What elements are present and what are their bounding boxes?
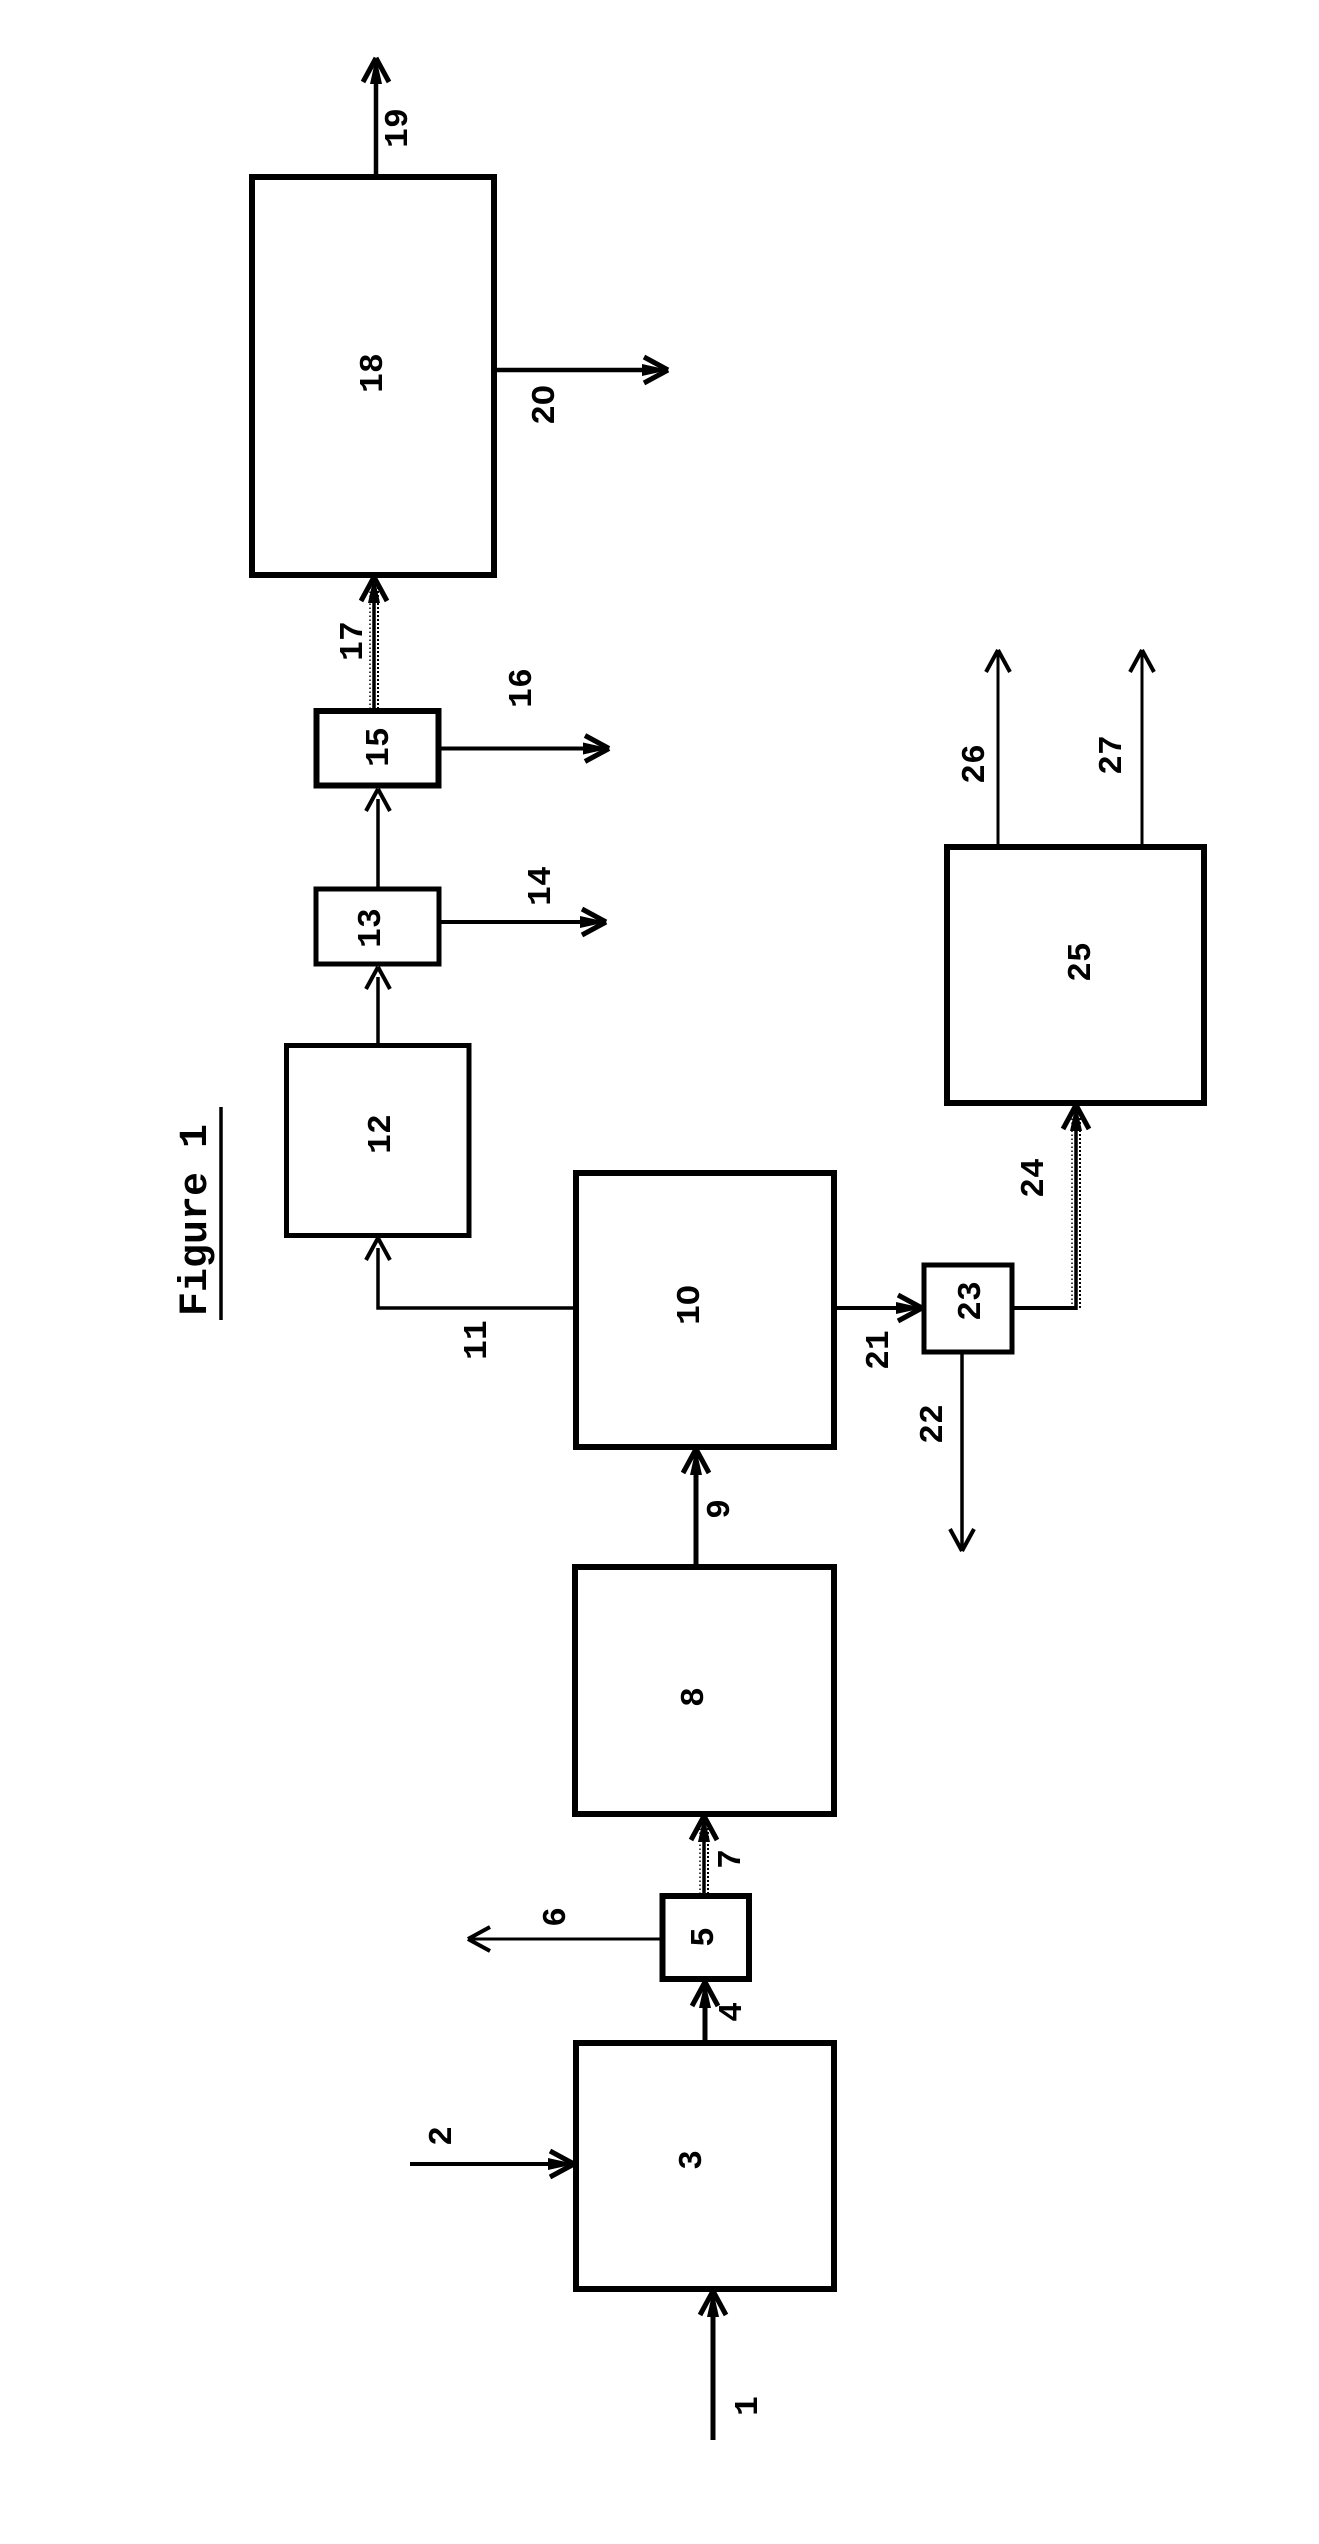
svg-text:4: 4 bbox=[714, 2002, 751, 2022]
svg-text:8: 8 bbox=[676, 1687, 713, 1707]
svg-text:27: 27 bbox=[1094, 735, 1131, 775]
svg-text:5: 5 bbox=[686, 1927, 723, 1947]
svg-text:25: 25 bbox=[1063, 942, 1100, 982]
svg-text:3: 3 bbox=[674, 2150, 711, 2170]
svg-text:14: 14 bbox=[523, 866, 560, 906]
svg-text:2: 2 bbox=[424, 2126, 461, 2146]
svg-text:11: 11 bbox=[459, 1320, 496, 1360]
svg-text:9: 9 bbox=[702, 1499, 739, 1519]
svg-text:18: 18 bbox=[355, 353, 392, 393]
svg-text:15: 15 bbox=[361, 727, 398, 767]
svg-text:6: 6 bbox=[538, 1907, 575, 1927]
svg-text:1: 1 bbox=[730, 2396, 767, 2416]
svg-text:23: 23 bbox=[953, 1281, 990, 1321]
svg-text:12: 12 bbox=[363, 1114, 400, 1154]
svg-text:26: 26 bbox=[957, 744, 994, 784]
svg-text:2O: 2O bbox=[527, 385, 564, 425]
svg-text:17: 17 bbox=[335, 621, 372, 661]
svg-text:7: 7 bbox=[713, 1849, 750, 1869]
svg-text:13: 13 bbox=[353, 908, 390, 948]
svg-text:16: 16 bbox=[504, 668, 541, 708]
svg-text:24: 24 bbox=[1016, 1158, 1053, 1198]
svg-text:19: 19 bbox=[380, 108, 417, 148]
svg-text:21: 21 bbox=[861, 1330, 898, 1370]
svg-text:1O: 1O bbox=[672, 1285, 709, 1325]
svg-text:Figure 1: Figure 1 bbox=[174, 1124, 219, 1316]
svg-text:22: 22 bbox=[915, 1404, 952, 1444]
